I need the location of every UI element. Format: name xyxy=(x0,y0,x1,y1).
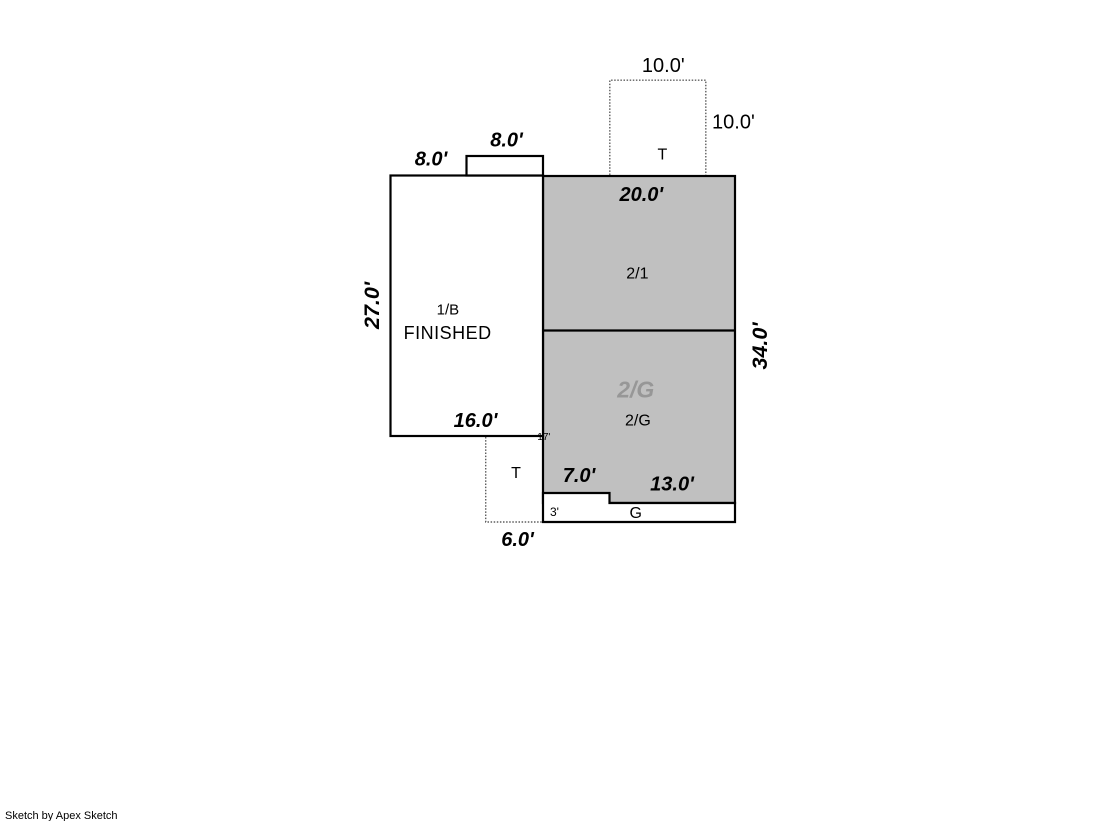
svg-text:1/B: 1/B xyxy=(437,302,460,319)
bottom T dotted rect xyxy=(486,437,542,522)
svg-text:20.0': 20.0' xyxy=(618,184,664,206)
svg-text:T: T xyxy=(511,465,521,482)
svg-text:2/G: 2/G xyxy=(625,413,651,430)
area 2/1 + 2/G gray block xyxy=(543,176,735,503)
area 1/B white rectangle xyxy=(391,176,544,437)
svg-text:Sketch by Apex Sketch: Sketch by Apex Sketch xyxy=(5,810,118,821)
svg-text:6.0': 6.0' xyxy=(501,529,535,551)
divider between 2/1 and 2/G xyxy=(543,329,735,331)
G strip white polygon xyxy=(543,493,735,522)
svg-text:2/1: 2/1 xyxy=(626,265,648,282)
svg-text:34.0': 34.0' xyxy=(748,322,772,370)
top T dotted square xyxy=(610,80,706,175)
svg-text:10.0': 10.0' xyxy=(712,112,755,134)
svg-text:16.0': 16.0' xyxy=(454,410,499,432)
svg-text:13.0': 13.0' xyxy=(650,474,695,496)
bump 8.0' on top of 1/B xyxy=(467,156,544,176)
svg-text:8.0': 8.0' xyxy=(490,130,524,152)
svg-text:3': 3' xyxy=(550,505,559,519)
svg-text:G: G xyxy=(629,505,641,522)
svg-text:8.0': 8.0' xyxy=(415,149,449,171)
svg-text:2/G: 2/G xyxy=(616,377,654,403)
svg-text:FINISHED: FINISHED xyxy=(404,323,492,343)
svg-text:T: T xyxy=(658,147,668,164)
svg-text:27.0': 27.0' xyxy=(360,281,384,330)
svg-text:7.0': 7.0' xyxy=(563,465,597,487)
svg-text:10.0': 10.0' xyxy=(642,55,685,77)
svg-text:17': 17' xyxy=(537,432,550,443)
